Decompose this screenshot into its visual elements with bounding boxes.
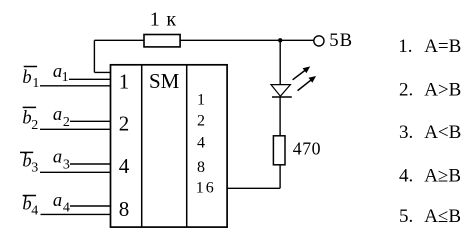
resistor R2 470 body (273, 136, 285, 165)
svg-text:2: 2 (63, 115, 70, 130)
svg-text:A>B: A>B (424, 80, 461, 101)
svg-text:b: b (22, 68, 31, 88)
wire input b1 (40, 85, 111, 87)
U1 internal divider right (186, 65, 188, 227)
svg-text:2: 2 (119, 112, 130, 136)
wire input a4 (70, 205, 111, 207)
wire input a2 (70, 120, 111, 122)
wire output vertical up to R2 (279, 165, 281, 189)
list item 2 A>B (399, 80, 461, 101)
svg-text:5В: 5В (329, 30, 353, 51)
wire LED anode up to junction (279, 40, 281, 84)
wire input b2 (40, 128, 111, 130)
svg-text:1: 1 (119, 70, 130, 94)
svg-text:4: 4 (197, 134, 205, 151)
LED D1 light arrow upper (293, 66, 311, 79)
svg-text:8: 8 (197, 159, 205, 176)
svg-text:A≤B: A≤B (424, 206, 461, 227)
svg-text:2: 2 (31, 118, 38, 133)
svg-text:1: 1 (62, 70, 69, 85)
list item 3 A<B (399, 122, 461, 143)
svg-text:4: 4 (119, 154, 130, 178)
label b2 with overbar (22, 107, 38, 133)
wire stub carry input into box (94, 71, 110, 73)
svg-text:SM: SM (149, 69, 180, 93)
svg-text:3.: 3. (399, 122, 413, 143)
wire input a1 (69, 78, 111, 80)
label a2 (53, 105, 70, 130)
svg-text:a: a (53, 148, 62, 168)
label a4 (53, 191, 70, 216)
svg-text:a: a (53, 191, 62, 211)
list item 5 A<=B (399, 206, 461, 227)
svg-text:470: 470 (293, 139, 321, 159)
LED D1 light arrow lower (298, 76, 317, 91)
LED D1 triangle (271, 85, 290, 97)
wire top rail (94, 39, 314, 41)
svg-text:4: 4 (31, 204, 38, 219)
summator U1 SM box outline (111, 65, 228, 227)
svg-text:2: 2 (197, 113, 205, 130)
label b4 with overbar (22, 195, 38, 219)
svg-text:5.: 5. (399, 206, 413, 227)
svg-text:1: 1 (197, 92, 205, 109)
label b3 with overbar (20, 151, 38, 175)
svg-text:1: 1 (196, 180, 204, 197)
list item 1 A=B (398, 36, 461, 57)
wire input a3 (70, 163, 111, 165)
terminal 5V circle (314, 36, 324, 46)
wire input b3 (40, 171, 111, 173)
svg-text:1 к: 1 к (150, 9, 177, 31)
svg-text:1.: 1. (398, 36, 412, 57)
label a3 (53, 148, 70, 173)
svg-text:4: 4 (63, 201, 70, 216)
label b1 with overbar (22, 67, 39, 92)
wire R2 top to LED cathode (279, 97, 281, 136)
svg-text:A<B: A<B (424, 122, 461, 143)
resistor R1 1k body (144, 35, 180, 47)
wire vertical from rail down to carry input (93, 40, 95, 72)
svg-text:6: 6 (206, 180, 214, 197)
svg-text:3: 3 (31, 161, 38, 176)
svg-text:8: 8 (119, 197, 130, 221)
svg-text:2.: 2. (399, 80, 413, 101)
svg-text:4.: 4. (399, 165, 413, 186)
label a1 (53, 62, 69, 85)
junction node dot (278, 38, 282, 42)
LED D1 cathode bar (272, 96, 292, 98)
U1 internal divider left (141, 65, 143, 227)
svg-text:3: 3 (63, 158, 70, 173)
wire output 16 horizontal (227, 187, 280, 189)
svg-text:A=B: A=B (424, 36, 461, 57)
svg-text:a: a (53, 105, 62, 125)
list item 4 A>=B (399, 165, 461, 186)
svg-text:1: 1 (32, 76, 39, 91)
svg-text:A≥B: A≥B (424, 165, 461, 186)
wire input b4 (41, 213, 111, 215)
